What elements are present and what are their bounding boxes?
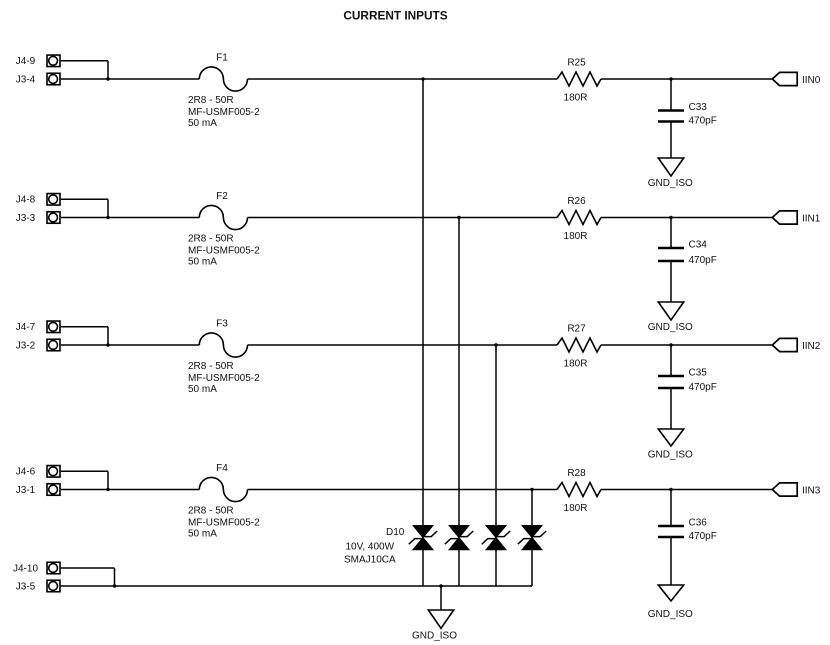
svg-text:GND_ISO: GND_ISO	[648, 450, 693, 461]
svg-text:50 mA: 50 mA	[188, 384, 217, 395]
svg-text:180R: 180R	[564, 358, 588, 369]
svg-text:MF-USMF005-2: MF-USMF005-2	[188, 373, 260, 384]
wire vertical from row 4 down to TVS diode 4	[531, 490, 533, 526]
fuse F4	[199, 477, 247, 501]
svg-text:J3-4: J3-4	[16, 74, 36, 85]
resistor R28	[557, 483, 601, 497]
resistor R27	[557, 338, 601, 352]
svg-text:C34: C34	[689, 240, 708, 251]
svg-text:IIN3: IIN3	[802, 486, 821, 497]
wire from J4-10 to junction	[61, 567, 115, 569]
svg-text:C36: C36	[689, 518, 708, 529]
capacitor C33	[658, 111, 684, 122]
svg-text:2R8 - 50R: 2R8 - 50R	[188, 234, 234, 245]
wire from J4-6 to junction	[61, 470, 108, 472]
svg-text:180R: 180R	[564, 92, 588, 103]
svg-text:R28: R28	[567, 468, 586, 479]
svg-text:SMAJ10CA: SMAJ10CA	[344, 555, 396, 566]
svg-text:J3-3: J3-3	[16, 213, 36, 224]
connector pin J4-9	[47, 55, 60, 67]
resistor R26	[557, 211, 601, 225]
junction of ground stub on bottom wire	[439, 584, 442, 587]
fuse value labels for F1	[188, 95, 260, 129]
TVS diode D10 element 2 (bidirectional)	[445, 526, 473, 550]
svg-text:J4-9: J4-9	[16, 56, 36, 67]
wire to capacitor C36	[670, 490, 672, 527]
svg-text:F4: F4	[216, 463, 228, 474]
fuse value labels for F2	[188, 234, 260, 268]
wire to capacitor C33	[670, 79, 672, 111]
junction of row 2 with vertical	[457, 216, 460, 219]
junction at row 1 left	[106, 77, 109, 80]
svg-text:J4-10: J4-10	[13, 563, 38, 574]
TVS diode D10 element 3 (bidirectional)	[482, 526, 510, 550]
svg-text:IIN1: IIN1	[802, 214, 821, 225]
TVS diode D10 element 1 (bidirectional)	[409, 526, 437, 550]
wire from fuse F2 to resistor R26	[248, 217, 558, 219]
wire to capacitor C34	[670, 218, 672, 249]
wire vertical from row 3 down to TVS diode 3	[495, 345, 497, 526]
svg-text:GND_ISO: GND_ISO	[412, 631, 457, 642]
wire from J4-9 to junction	[61, 60, 108, 62]
wire from J4-7 to junction	[61, 326, 108, 328]
junction at row 4 left	[106, 488, 109, 491]
svg-text:F2: F2	[216, 191, 228, 202]
resistor R25	[557, 72, 601, 86]
svg-text:50 mA: 50 mA	[188, 118, 217, 129]
svg-text:F3: F3	[216, 319, 228, 330]
wire stub to bottom ground	[440, 586, 442, 610]
wire from fuse F1 to resistor R25	[248, 78, 558, 80]
wire from fuse F4 to resistor R28	[248, 489, 558, 491]
svg-text:J4-8: J4-8	[16, 195, 36, 206]
svg-text:R26: R26	[567, 196, 586, 207]
wire from TVS diode 2 to bottom wire	[458, 550, 460, 586]
svg-text:2R8 - 50R: 2R8 - 50R	[188, 506, 234, 517]
connector pin J4-8	[47, 194, 60, 206]
svg-text:470pF: 470pF	[689, 531, 717, 542]
ground GND_ISO row 3	[658, 429, 683, 446]
svg-text:MF-USMF005-2: MF-USMF005-2	[188, 107, 260, 118]
wire to capacitor C35	[670, 345, 672, 376]
svg-text:MF-USMF005-2: MF-USMF005-2	[188, 246, 260, 257]
svg-text:GND_ISO: GND_ISO	[648, 322, 693, 333]
ground GND_ISO row 2	[658, 302, 683, 320]
wire from J3-3 to fuse F2	[61, 217, 200, 219]
capacitor C36	[658, 526, 684, 537]
svg-text:IIN0: IIN0	[802, 75, 821, 86]
wire from TVS diode 3 to bottom wire	[495, 550, 497, 586]
svg-text:J3-1: J3-1	[16, 485, 36, 496]
wire from R25 to output flag	[601, 78, 772, 80]
svg-text:MF-USMF005-2: MF-USMF005-2	[188, 518, 260, 529]
wire from J3-2 to fuse F3	[61, 344, 200, 346]
wire from J3-4 to fuse F1	[61, 78, 200, 80]
junction at capacitor branch row 1	[669, 77, 672, 80]
connector pin J4-6	[47, 466, 60, 478]
ground GND_ISO row 1	[658, 158, 683, 176]
wire from J4-8 to junction	[61, 198, 108, 200]
junction at row 3 left	[106, 343, 109, 346]
junction at capacitor branch row 4	[669, 488, 672, 491]
fuse value labels for F4	[188, 506, 260, 540]
wire from R26 to output flag	[601, 217, 772, 219]
wire from TVS diode 1 to bottom wire	[422, 550, 424, 586]
svg-text:180R: 180R	[564, 503, 588, 514]
wire from C33 to ground	[670, 122, 672, 159]
svg-text:470pF: 470pF	[689, 382, 717, 393]
capacitor C35	[658, 376, 684, 388]
wire from R28 to output flag	[601, 489, 772, 491]
connector pin J3-3	[47, 212, 60, 224]
connector pin J3-2	[47, 339, 60, 351]
svg-text:F1: F1	[216, 53, 228, 64]
output port flag IIN1	[772, 211, 797, 224]
svg-text:50 mA: 50 mA	[188, 528, 217, 539]
junction at capacitor branch row 3	[669, 343, 672, 346]
connector pin J3-1	[47, 484, 60, 496]
wire from C34 to ground	[670, 261, 672, 302]
svg-text:GND_ISO: GND_ISO	[648, 609, 693, 620]
wire from R27 to output flag	[601, 344, 772, 346]
svg-text:180R: 180R	[564, 231, 588, 242]
wire from C36 to ground	[670, 537, 672, 585]
bottom common wire	[61, 585, 532, 587]
connector pin J4-10	[47, 562, 60, 574]
svg-text:50 mA: 50 mA	[188, 256, 217, 267]
svg-text:J3-5: J3-5	[16, 581, 36, 592]
svg-text:C33: C33	[689, 102, 708, 113]
svg-text:C35: C35	[689, 368, 708, 379]
svg-text:J4-6: J4-6	[16, 467, 36, 478]
svg-text:10V, 400W: 10V, 400W	[346, 542, 395, 553]
svg-text:J4-7: J4-7	[16, 322, 36, 333]
ground GND_ISO bottom	[428, 610, 453, 628]
junction at bottom left	[113, 584, 116, 587]
wire from C35 to ground	[670, 388, 672, 429]
junction of row 4 with vertical	[530, 488, 533, 491]
junction of row 1 with vertical	[421, 77, 424, 80]
wire from fuse F3 to resistor R27	[248, 344, 558, 346]
fuse F3	[199, 333, 247, 357]
junction at capacitor branch row 2	[669, 216, 672, 219]
svg-text:470pF: 470pF	[689, 255, 717, 266]
wire from TVS diode 4 to bottom wire	[531, 550, 533, 586]
wire vertical from row 1 down to TVS diode 1	[422, 79, 424, 526]
connector pin J3-4	[47, 73, 60, 85]
svg-text:J3-2: J3-2	[16, 340, 36, 351]
svg-text:R25: R25	[567, 57, 586, 68]
output port flag IIN2	[772, 338, 797, 351]
fuse value labels for F3	[188, 361, 260, 395]
output port flag IIN3	[772, 483, 797, 496]
svg-text:2R8 - 50R: 2R8 - 50R	[188, 95, 234, 106]
svg-text:R27: R27	[567, 323, 586, 334]
connector pin J3-5	[47, 580, 60, 592]
fuse F1	[199, 67, 247, 91]
output port flag IIN0	[772, 72, 797, 85]
svg-text:CURRENT INPUTS: CURRENT INPUTS	[343, 8, 447, 22]
junction of row 3 with vertical	[494, 343, 497, 346]
wire from J3-1 to fuse F4	[61, 489, 200, 491]
svg-text:2R8 - 50R: 2R8 - 50R	[188, 361, 234, 372]
wire vertical from row 2 down to TVS diode 2	[458, 218, 460, 526]
capacitor C34	[658, 248, 684, 261]
svg-text:IIN2: IIN2	[802, 341, 821, 352]
junction at row 2 left	[106, 216, 109, 219]
connector pin J4-7	[47, 321, 60, 333]
ground GND_ISO row 4	[658, 585, 683, 601]
TVS diode D10 element 4 (bidirectional)	[518, 526, 546, 550]
fuse F2	[199, 205, 247, 229]
svg-text:D10: D10	[386, 527, 405, 538]
svg-text:GND_ISO: GND_ISO	[648, 178, 693, 189]
svg-text:470pF: 470pF	[689, 115, 717, 126]
